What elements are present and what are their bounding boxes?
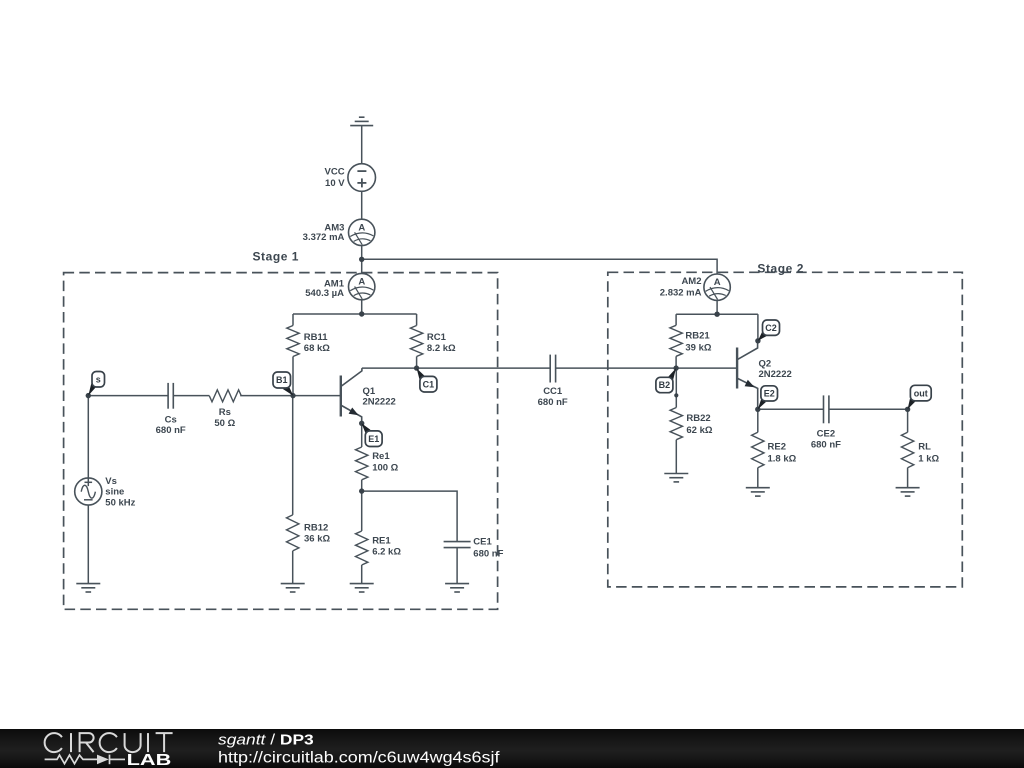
- svg-text:50 Ω: 50 Ω: [214, 418, 235, 429]
- NODE LABEL BOXES: [92, 320, 931, 447]
- resistor RB22: [670, 408, 682, 440]
- svg-text:Stage 2: Stage 2: [757, 262, 804, 276]
- node E2: [755, 407, 760, 412]
- svg-text:Q2: Q2: [759, 358, 772, 369]
- wire stage1 top rail: [293, 313, 417, 315]
- svg-text:CC1: CC1: [543, 386, 563, 397]
- wire collector C1 to CC1 to B2: [362, 367, 550, 369]
- tail out: [908, 399, 916, 409]
- svg-text:680 nF: 680 nF: [811, 439, 841, 450]
- ground RL: [896, 488, 920, 496]
- ammeter AM3: [349, 219, 375, 245]
- wire RE1 to ground: [361, 565, 363, 584]
- wire CE1 to ground: [456, 548, 458, 584]
- svg-text:50 kHz: 50 kHz: [105, 498, 135, 509]
- wire RB21 top lead: [675, 314, 677, 325]
- resistor RC1: [410, 326, 422, 357]
- node stage2 rail junction: [714, 312, 719, 317]
- svg-text:8.2 kΩ: 8.2 kΩ: [427, 343, 456, 354]
- svg-text:B1: B1: [276, 375, 288, 385]
- NODE LABEL TAILS: [88, 332, 915, 434]
- tail E2: [758, 399, 766, 409]
- svg-text:1 kΩ: 1 kΩ: [918, 453, 939, 464]
- ammeter AM1: [349, 273, 375, 299]
- resistor RE2: [752, 432, 764, 467]
- node label out: [910, 385, 931, 401]
- svg-text:10 V: 10 V: [325, 178, 345, 189]
- wire junction to RE1: [361, 491, 363, 531]
- wire junction to CE1: [362, 491, 457, 541]
- voltage source VCC: [348, 164, 376, 192]
- svg-text:E1: E1: [368, 434, 379, 444]
- stage1 dashed box: [64, 273, 498, 610]
- resistor RB12: [287, 515, 299, 551]
- svg-text:http://circuitlab.com/c6uw4wg4: http://circuitlab.com/c6uw4wg4s6sjf: [218, 748, 500, 766]
- capacitor CE2: [824, 395, 829, 423]
- wire s to Vs: [87, 396, 89, 478]
- svg-text:Re1: Re1: [372, 451, 390, 462]
- wire E2 node down to RE2: [757, 409, 759, 432]
- node E1: [359, 421, 364, 426]
- wire RC1 bottom lead to C1: [416, 357, 418, 369]
- ground top (flipped): [350, 117, 373, 125]
- wire RC1 top lead: [416, 314, 418, 326]
- node wire joint below B2: [674, 393, 678, 397]
- svg-text:2N2222: 2N2222: [759, 369, 792, 380]
- node B1: [290, 393, 295, 398]
- wire RB22 to ground: [675, 440, 677, 474]
- svg-text:A: A: [714, 277, 721, 288]
- svg-text:Q1: Q1: [363, 386, 376, 397]
- svg-text:6.2 kΩ: 6.2 kΩ: [372, 546, 401, 557]
- wire junction to AM2 branch: [362, 259, 717, 274]
- svg-text:RB11: RB11: [304, 332, 328, 343]
- wire out down to RL: [907, 409, 909, 432]
- wire RB21 bottom lead to B2: [675, 356, 677, 368]
- node label E1: [365, 431, 382, 447]
- resistor RB21: [670, 325, 682, 356]
- svg-text:RB12: RB12: [304, 523, 328, 534]
- svg-text:s: s: [96, 375, 101, 385]
- tail s: [88, 383, 96, 395]
- svg-text:62 kΩ: 62 kΩ: [686, 425, 712, 436]
- svg-text:36 kΩ: 36 kΩ: [304, 534, 330, 545]
- wire VCC to AM3: [361, 191, 363, 219]
- svg-text:sine: sine: [105, 487, 124, 498]
- ground RE1: [350, 584, 374, 592]
- wire CE2 to out: [829, 408, 908, 410]
- wire RB11 top lead: [292, 314, 294, 326]
- ground RE2: [746, 488, 770, 496]
- ground RB12: [281, 584, 305, 592]
- wire B2 down to RB22: [675, 368, 677, 407]
- svg-text:2.832 mA: 2.832 mA: [660, 287, 702, 298]
- svg-text:C2: C2: [765, 323, 777, 333]
- capacitor Cs: [168, 383, 173, 409]
- wire RB12 to ground: [292, 551, 294, 584]
- svg-text:680 nF: 680 nF: [538, 397, 568, 408]
- wire AM1 to rail: [361, 300, 363, 314]
- wire RB11 bottom lead to B1: [292, 357, 294, 396]
- wire AM2 to stage2 rail: [716, 300, 718, 314]
- wire ground to VCC: [361, 126, 363, 164]
- wire B1 down to RB12: [292, 396, 294, 515]
- svg-text:RB21: RB21: [685, 330, 710, 341]
- tail E1: [362, 423, 371, 433]
- svg-text:Vs: Vs: [105, 476, 117, 487]
- logo resistor+diode squiggle: [45, 755, 125, 765]
- node Re1/RE1 junction: [359, 488, 364, 493]
- svg-text:B2: B2: [659, 380, 671, 390]
- resistor Rs: [209, 390, 241, 402]
- wire E1 to Re1: [361, 423, 363, 447]
- wire B1 to Q1 base: [293, 395, 341, 397]
- node label s: [92, 372, 105, 388]
- svg-text:CE1: CE1: [473, 536, 492, 547]
- wire E2 to CE2: [758, 408, 824, 410]
- svg-text:RE1: RE1: [372, 535, 391, 546]
- resistor RE1: [356, 531, 368, 565]
- wire Re1 to junction: [361, 480, 363, 491]
- node label B2: [656, 377, 673, 392]
- svg-text:A: A: [358, 222, 365, 233]
- node label C1: [420, 376, 437, 392]
- svg-text:100 Ω: 100 Ω: [372, 463, 398, 474]
- svg-text:Stage 1: Stage 1: [253, 250, 300, 264]
- resistor RB11: [287, 326, 299, 357]
- JUNCTION DOTS: [86, 257, 911, 494]
- node C2: [755, 338, 760, 343]
- svg-text:E2: E2: [764, 389, 775, 399]
- ground CE1: [445, 584, 469, 592]
- tail B2: [668, 368, 676, 380]
- node label C2: [763, 320, 780, 335]
- wire rail down to C2: [757, 314, 759, 341]
- wire s node to B1 main input: [88, 395, 168, 397]
- node stage1 rail junction: [359, 311, 364, 316]
- logo CIRCUIT (thin strokes): [45, 733, 173, 752]
- resistor Re1: [356, 447, 368, 480]
- node C1: [414, 365, 419, 370]
- svg-text:Cs: Cs: [165, 415, 177, 426]
- ammeter AM2: [704, 274, 730, 300]
- svg-text:39 kΩ: 39 kΩ: [685, 343, 711, 354]
- svg-text:680 nF: 680 nF: [473, 548, 503, 559]
- svg-text:out: out: [914, 388, 928, 398]
- svg-text:Rs: Rs: [219, 407, 231, 418]
- svg-text:3.372 mA: 3.372 mA: [303, 232, 345, 243]
- wire Vs to ground: [87, 505, 89, 583]
- svg-text:sgantt / DP3: sgantt / DP3: [218, 732, 314, 749]
- svg-text:1.8 kΩ: 1.8 kΩ: [768, 453, 797, 464]
- wire RE2 to ground: [757, 468, 759, 488]
- capacitor CE1: [444, 542, 471, 548]
- node s: [86, 393, 91, 398]
- node B2: [673, 365, 678, 370]
- source Vs (sine): [75, 478, 102, 505]
- node label B1: [273, 372, 291, 388]
- ground Vs: [76, 584, 100, 592]
- svg-text:CE2: CE2: [817, 429, 835, 440]
- capacitor CC1: [550, 355, 555, 383]
- svg-text:RL: RL: [918, 442, 931, 453]
- svg-text:RC1: RC1: [427, 332, 447, 343]
- tail C1: [417, 368, 425, 379]
- ground RB22: [664, 474, 688, 482]
- tail B1: [283, 385, 293, 396]
- resistor RL: [901, 432, 913, 467]
- svg-text:VCC: VCC: [325, 166, 345, 177]
- svg-text:AM2: AM2: [681, 276, 701, 287]
- node label E2: [761, 386, 778, 401]
- svg-text:A: A: [358, 277, 365, 288]
- wire RL to ground: [907, 468, 909, 488]
- transistor Q1: [341, 368, 362, 423]
- transistor Q2: [737, 341, 758, 410]
- svg-text:2N2222: 2N2222: [363, 397, 396, 408]
- svg-text:LAB: LAB: [127, 751, 172, 768]
- svg-text:RB22: RB22: [686, 413, 710, 424]
- stage2 dashed box: [608, 272, 963, 587]
- node out: [905, 407, 910, 412]
- wire stage2 top rail: [676, 313, 758, 315]
- node junction trunk/AM2 branch: [359, 257, 364, 262]
- svg-text:C1: C1: [423, 379, 435, 389]
- wire AM3 to junction: [361, 246, 363, 274]
- svg-text:680 nF: 680 nF: [156, 425, 186, 436]
- tail C2: [758, 332, 767, 341]
- svg-text:68 kΩ: 68 kΩ: [304, 343, 330, 354]
- svg-text:RE2: RE2: [768, 442, 786, 453]
- svg-text:540.3 µA: 540.3 µA: [305, 288, 344, 299]
